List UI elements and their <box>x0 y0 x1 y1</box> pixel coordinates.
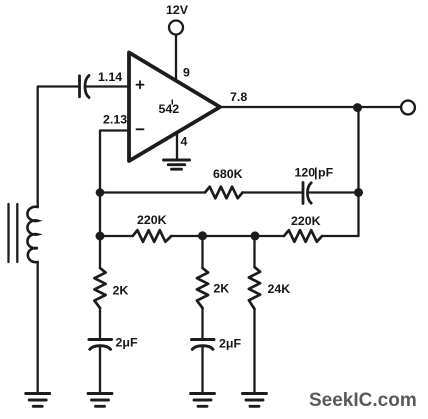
svg-text:24K: 24K <box>268 282 291 296</box>
svg-text:9: 9 <box>183 66 190 80</box>
svg-text:2K: 2K <box>113 284 129 298</box>
svg-text:2μF: 2μF <box>219 337 241 351</box>
svg-text:220K: 220K <box>291 214 321 228</box>
svg-text:12V: 12V <box>166 3 189 17</box>
svg-text:7.8: 7.8 <box>230 90 247 104</box>
svg-text:4: 4 <box>181 135 188 149</box>
svg-text:SeekIC.com: SeekIC.com <box>309 390 417 411</box>
svg-text:2K: 2K <box>213 282 229 296</box>
svg-text:1.14: 1.14 <box>98 70 122 84</box>
svg-text:2.13: 2.13 <box>103 113 127 127</box>
svg-text:680K: 680K <box>213 167 243 181</box>
svg-text:pF: pF <box>318 166 334 180</box>
svg-text:542: 542 <box>159 102 180 116</box>
svg-text:120: 120 <box>295 166 316 180</box>
svg-text:220K: 220K <box>137 213 167 227</box>
svg-text:2μF: 2μF <box>116 336 138 350</box>
